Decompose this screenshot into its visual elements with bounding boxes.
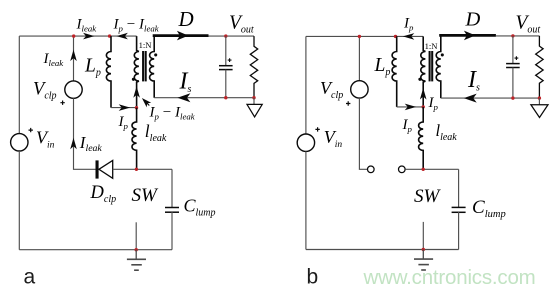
arrowhead Is left on output bottom wire (b) (464, 94, 477, 103)
ground triangle at output (a) (247, 104, 262, 117)
circuit b: node dot clamp/top-wire junction (358, 35, 361, 38)
svg-text:Vin: Vin (324, 127, 343, 150)
plus sign of Vin (a) (29, 128, 33, 132)
circuit a: node dot Lp/top-wire junction (108, 34, 111, 37)
circuit b: output bottom wire Is (441, 97, 540, 99)
open switch terminal left (b) (368, 166, 375, 173)
voltage source Vclp (a) (65, 81, 82, 98)
circuit b: node dot output cap bottom (511, 96, 514, 99)
transformer T1 secondary phase dot (a) (154, 53, 157, 56)
svg-text:Ip: Ip (118, 114, 129, 131)
circuit a: output bottom wire Is (154, 97, 254, 99)
circuit b: node dot resistor bottom (538, 96, 541, 99)
arrowhead Ileak right on top wire (a) (83, 33, 95, 40)
plus sign of Vin (b) (315, 127, 319, 131)
voltage source Vin (a) (11, 134, 28, 151)
circuit a: node dot resistor bottom (252, 96, 255, 99)
diode Dclp cathode bar (96, 160, 99, 178)
svg-text:Ip − Ileak: Ip − Ileak (113, 16, 160, 33)
circuit b: wire from Lp bottom to primary node (397, 106, 424, 108)
transformer T2 secondary phase dot (b) (441, 53, 444, 56)
circuit a: clamp branch wire from top node down to Vclp (73, 36, 75, 81)
arrowhead Ip right on Lp bottom wire (b) (405, 104, 417, 111)
svg-text:Vout: Vout (229, 13, 254, 36)
svg-text:Ip − Ileak: Ip − Ileak (149, 105, 196, 122)
arrowhead of diode D (a) (177, 31, 189, 41)
switch SW stub (b) (422, 222, 424, 250)
annotation arrow to primary lead (a) (140, 96, 152, 108)
circuit b: clamp branch wire from top node down to Vclp (358, 36, 360, 80)
svg-text:Dclp: Dclp (90, 183, 117, 205)
svg-text:Clump: Clump (184, 196, 216, 219)
circuit a: top wire from input rail to transformer primary (19, 35, 136, 37)
output capacitor branch upper (a) (225, 36, 227, 65)
output capacitor branch upper (b) (512, 36, 514, 63)
inductor lleak (b) (419, 107, 424, 169)
circuit b: wire from open terminal to Clump rail (405, 168, 458, 170)
svg-text:lleak: lleak (436, 121, 458, 143)
arrowhead Ip up on primary lead (b) (420, 88, 427, 100)
ground symbol (a) (127, 250, 146, 271)
circuit a: node dot ground junction (135, 248, 138, 251)
svg-text:Vclp: Vclp (33, 80, 57, 102)
circuit b: node dot output cap top (511, 34, 514, 37)
load resistor (b) (536, 36, 543, 98)
svg-text:a: a (24, 266, 36, 289)
load resistor (a) (250, 36, 257, 98)
inductor Lp (b) (392, 36, 397, 107)
inductor Lp (a) (106, 36, 111, 108)
circuit a: node dot lleak/Dclp junction (135, 168, 138, 171)
svg-text:lleak: lleak (145, 121, 167, 144)
circuit b: node dot Lp/primary/leak junction (422, 105, 425, 108)
svg-text:Is: Is (179, 69, 192, 96)
plus sign of output capacitor (b) (515, 56, 519, 60)
circuit b: bottom ground wire (306, 249, 459, 251)
circuit b: node dot ground junction (422, 248, 425, 251)
capacitor Clump plates (a) (165, 208, 179, 213)
capacitor Clump plates (b) (452, 207, 466, 212)
output capacitor plates (b) (506, 64, 520, 68)
svg-text:Lp: Lp (374, 55, 391, 78)
ground stub at output (b) (538, 98, 540, 105)
circuit b: clamp branch wire from Vclp down to open terminal (359, 98, 367, 169)
ground stub at output (a) (253, 98, 255, 105)
capacitor Clump rail upper (a) (171, 169, 173, 207)
circuit a: bottom ground wire (19, 249, 172, 251)
svg-text:D: D (465, 9, 481, 31)
circuit a: node dot clamp/top-wire junction (72, 34, 75, 37)
circuit b: left input rail lower segment (305, 151, 307, 249)
plus sign of Vclp (a) (60, 101, 64, 105)
svg-text:1:N: 1:N (139, 40, 153, 50)
diode D ideal bar (b) (439, 34, 496, 37)
svg-text:SW: SW (414, 186, 442, 207)
inductor lleak (a) (132, 108, 137, 170)
circuit a: left input rail lower segment (18, 151, 20, 250)
diode Dclp triangle (99, 160, 113, 178)
svg-text:Vout: Vout (516, 13, 541, 36)
output capacitor plates (a) (219, 66, 233, 70)
open switch terminal right (b) (399, 166, 406, 173)
svg-text:1:N: 1:N (425, 41, 439, 51)
svg-text:Ileak: Ileak (43, 51, 65, 68)
transformer T1 primary winding (a) (134, 36, 139, 108)
svg-text:Is: Is (467, 67, 480, 94)
circuit b: node dot Lp/top-wire junction (394, 35, 397, 38)
arrowhead Ip left on top wire (b) (403, 33, 415, 40)
transformer T2 primary winding (b) (421, 36, 426, 107)
arrowhead Ip up on primary lead (a) (133, 86, 140, 98)
circuit b: top wire from input rail to transformer primary (306, 35, 423, 37)
circuit a: wire from Dclp to Clump rail (113, 168, 172, 170)
svg-text:www.cntronics.com: www.cntronics.com (363, 266, 536, 289)
transformer T1 secondary winding (a) (150, 36, 155, 98)
svg-text:Ip: Ip (403, 15, 414, 32)
svg-text:Clump: Clump (472, 197, 506, 220)
output capacitor branch lower (a) (225, 70, 227, 98)
circuit b: left input rail upper segment (305, 36, 307, 134)
capacitor Clump rail lower (a) (171, 212, 173, 250)
arrowhead Ileak up on clamp branch lower (a) (70, 138, 77, 150)
voltage source Vin (b) (297, 134, 314, 151)
plus sign of Vclp (b) (346, 101, 350, 105)
transformer T1 core bars (a) (143, 51, 146, 81)
ground symbol (b) (414, 250, 433, 271)
transformer T1 primary phase dot (a) (132, 78, 135, 81)
plus sign of output capacitor (a) (228, 58, 232, 62)
circuit a: node dot output cap top (224, 34, 227, 37)
svg-text:b: b (307, 266, 319, 289)
arrowhead of diode D (b) (464, 31, 476, 41)
svg-text:Ileak: Ileak (79, 133, 103, 154)
svg-text:D: D (178, 7, 194, 31)
capacitor Clump rail upper (b) (458, 169, 460, 207)
output capacitor branch lower (b) (512, 68, 514, 99)
transformer T2 secondary winding (b) (436, 36, 441, 98)
svg-text:Ileak: Ileak (76, 16, 98, 33)
capacitor Clump rail lower (b) (458, 212, 460, 250)
svg-text:Ip: Ip (402, 117, 413, 134)
arrowhead Ileak up on clamp branch (a) (70, 50, 77, 62)
svg-text:Ip: Ip (428, 95, 439, 112)
transformer T2 primary phase dot (b) (418, 78, 421, 81)
voltage source Vclp (b) (351, 81, 368, 98)
svg-text:SW: SW (132, 185, 160, 206)
circuit a: node dot output cap bottom (224, 96, 227, 99)
transformer T2 core bars (b) (430, 51, 433, 81)
arrowhead Ip right on Lp bottom wire (a) (119, 104, 131, 111)
ground triangle at output (b) (531, 105, 548, 118)
circuit b: output top wire (496, 35, 540, 37)
circuit b: node dot lleak/open-terminal junction (422, 168, 425, 171)
svg-text:Vin: Vin (36, 128, 55, 151)
circuit a: clamp branch wire from Vclp down to diode corner (74, 98, 96, 169)
arrowhead Ip-Ileak left on top wire (a) (116, 33, 128, 40)
circuit a: left input rail upper segment (18, 36, 20, 134)
diode D ideal bar (a) (153, 34, 209, 37)
svg-text:Vclp: Vclp (320, 78, 343, 101)
circuit a: output top wire (209, 35, 255, 37)
arrowhead Is left on output bottom wire (a) (177, 93, 190, 102)
switch SW stub (a) (135, 222, 137, 249)
circuit a: wire from Lp bottom to primary node (111, 107, 137, 109)
svg-text:Lp: Lp (84, 56, 101, 79)
circuit a: node dot Lp/primary/leak junction (135, 106, 138, 109)
